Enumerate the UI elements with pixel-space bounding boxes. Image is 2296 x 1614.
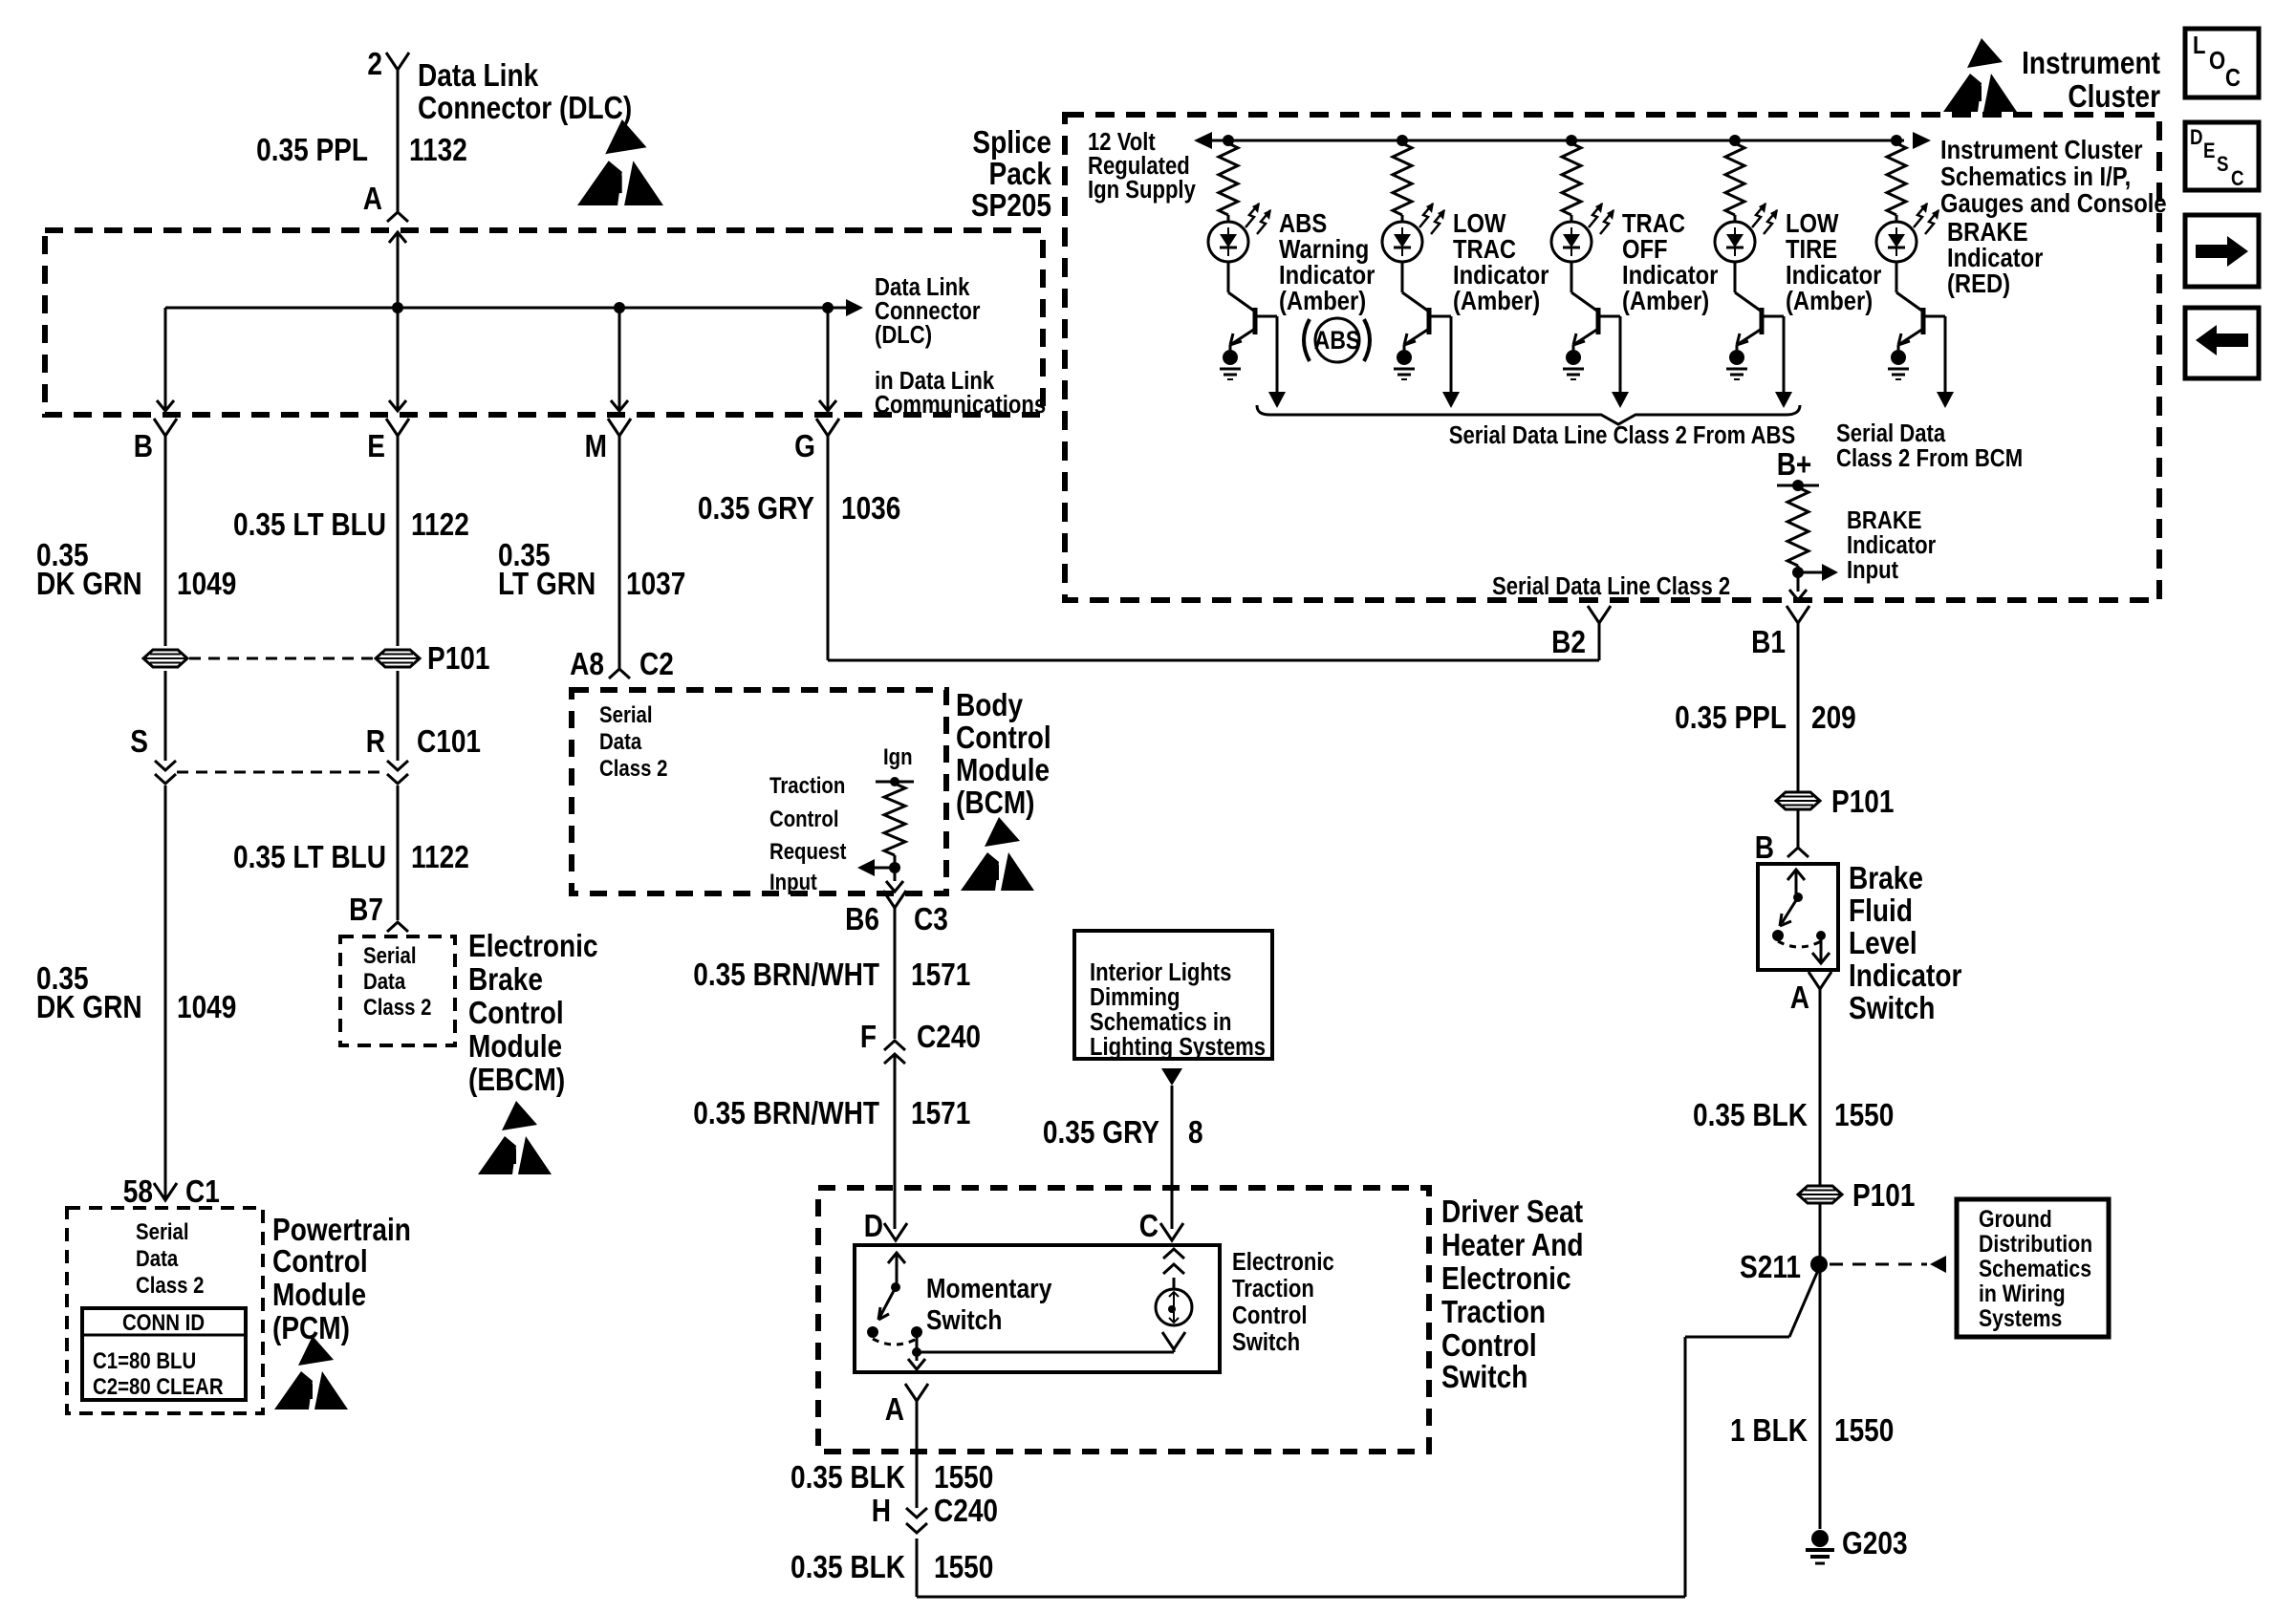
svg-text:M: M: [585, 429, 607, 464]
svg-text:C: C: [2231, 168, 2244, 191]
svg-text:Serial: Serial: [599, 701, 653, 727]
svg-text:Interior Lights: Interior Lights: [1090, 958, 1231, 986]
svg-text:Request: Request: [769, 838, 847, 864]
svg-text:Electronic: Electronic: [1441, 1261, 1571, 1297]
svg-text:0.35 LT BLU: 0.35 LT BLU: [233, 840, 386, 875]
svg-text:R: R: [366, 724, 385, 760]
svg-text:1122: 1122: [411, 840, 469, 875]
svg-text:S: S: [130, 724, 148, 760]
svg-text:Electronic: Electronic: [468, 929, 598, 964]
svg-text:C240: C240: [917, 1020, 981, 1055]
svg-text:Ground: Ground: [1979, 1205, 2052, 1232]
svg-text:1550: 1550: [1834, 1413, 1894, 1449]
svg-text:Module: Module: [468, 1029, 562, 1065]
svg-text:1550: 1550: [934, 1460, 993, 1496]
svg-text:Heater And: Heater And: [1441, 1228, 1584, 1263]
svg-text:E: E: [2203, 140, 2215, 163]
svg-text:Ign Supply: Ign Supply: [1088, 176, 1196, 204]
svg-text:Data: Data: [136, 1245, 179, 1271]
svg-text:L: L: [2193, 32, 2205, 59]
svg-text:Body: Body: [956, 688, 1023, 723]
svg-text:Input: Input: [1847, 556, 1898, 584]
svg-text:A8: A8: [570, 647, 604, 682]
svg-text:1550: 1550: [934, 1550, 993, 1585]
svg-text:58: 58: [123, 1174, 153, 1210]
svg-text:1049: 1049: [177, 990, 236, 1025]
svg-text:P101: P101: [427, 641, 489, 677]
svg-text:0.35 LT BLU: 0.35 LT BLU: [233, 507, 386, 543]
svg-text:(Amber): (Amber): [1786, 285, 1873, 315]
svg-text:E: E: [367, 429, 385, 464]
svg-text:Class 2: Class 2: [599, 755, 667, 781]
svg-text:Fluid: Fluid: [1849, 893, 1913, 929]
svg-text:Serial: Serial: [136, 1218, 189, 1244]
svg-text:DK GRN: DK GRN: [36, 567, 142, 602]
svg-text:Driver Seat: Driver Seat: [1441, 1194, 1583, 1230]
svg-text:Serial Data Line Class 2 From: Serial Data Line Class 2 From ABS: [1449, 421, 1795, 449]
svg-text:B+: B+: [1777, 447, 1812, 483]
svg-text:Switch: Switch: [1232, 1328, 1300, 1356]
svg-text:G: G: [794, 429, 815, 464]
svg-text:1 BLK: 1 BLK: [1730, 1413, 1808, 1449]
svg-text:C2: C2: [639, 647, 674, 682]
svg-text:(EBCM): (EBCM): [468, 1063, 565, 1098]
svg-text:Control: Control: [1232, 1302, 1307, 1329]
svg-text:0.35 PPL: 0.35 PPL: [256, 133, 368, 168]
svg-text:(Amber): (Amber): [1279, 285, 1366, 315]
svg-text:Electronic: Electronic: [1232, 1248, 1334, 1276]
svg-text:P101: P101: [1831, 785, 1894, 820]
svg-text:Switch: Switch: [1849, 991, 1935, 1026]
svg-text:1049: 1049: [177, 567, 236, 602]
svg-text:1571: 1571: [911, 1096, 970, 1131]
svg-text:S211: S211: [1740, 1250, 1801, 1285]
svg-text:Gauges and Console: Gauges and Console: [1940, 187, 2167, 218]
svg-text:CONN ID: CONN ID: [122, 1309, 205, 1335]
svg-text:Dimming: Dimming: [1090, 983, 1180, 1011]
svg-text:Module: Module: [272, 1278, 366, 1313]
svg-text:B: B: [1755, 830, 1774, 866]
svg-text:F: F: [860, 1020, 877, 1055]
svg-text:Pack: Pack: [989, 157, 1052, 192]
svg-text:Switch: Switch: [1441, 1360, 1527, 1395]
svg-text:0.35 BRN/WHT: 0.35 BRN/WHT: [693, 1096, 879, 1131]
svg-text:O: O: [2209, 47, 2225, 75]
svg-text:Module: Module: [956, 753, 1050, 788]
svg-text:Switch: Switch: [926, 1304, 1002, 1335]
svg-text:Connector (DLC): Connector (DLC): [418, 91, 632, 126]
svg-text:A: A: [885, 1392, 904, 1428]
svg-text:Control: Control: [769, 806, 839, 831]
svg-text:Brake: Brake: [468, 962, 543, 998]
svg-text:1132: 1132: [409, 133, 467, 168]
svg-text:1571: 1571: [911, 958, 970, 993]
svg-text:(Amber): (Amber): [1453, 285, 1540, 315]
svg-text:209: 209: [1811, 700, 1856, 736]
svg-text:Systems: Systems: [1979, 1304, 2062, 1331]
svg-text:(DLC): (DLC): [875, 321, 932, 349]
svg-text:D: D: [864, 1209, 883, 1244]
svg-text:G203: G203: [1842, 1526, 1908, 1561]
svg-text:Ign: Ign: [883, 743, 913, 769]
svg-text:Lighting Systems: Lighting Systems: [1090, 1033, 1266, 1061]
svg-text:LT GRN: LT GRN: [498, 567, 596, 602]
svg-text:C3: C3: [914, 902, 948, 937]
svg-text:C: C: [1139, 1209, 1159, 1244]
svg-text:Serial Data: Serial Data: [1836, 420, 1946, 447]
svg-text:2: 2: [367, 47, 382, 82]
svg-text:C240: C240: [934, 1494, 998, 1529]
svg-text:Level: Level: [1849, 926, 1917, 961]
svg-text:Traction: Traction: [1441, 1295, 1546, 1330]
svg-text:C1=80 BLU: C1=80 BLU: [93, 1347, 196, 1373]
svg-text:0.35 BLK: 0.35 BLK: [1693, 1098, 1808, 1133]
svg-text:in Wiring: in Wiring: [1979, 1280, 2066, 1306]
svg-text:Class 2 From BCM: Class 2 From BCM: [1836, 444, 2023, 472]
svg-text:H: H: [872, 1494, 891, 1529]
svg-text:A: A: [1790, 980, 1809, 1016]
svg-text:0.35 PPL: 0.35 PPL: [1675, 700, 1787, 736]
svg-text:Indicator: Indicator: [1847, 531, 1937, 559]
svg-text:(BCM): (BCM): [956, 785, 1035, 821]
svg-text:Serial: Serial: [363, 942, 417, 968]
svg-text:1122: 1122: [411, 507, 469, 543]
svg-text:Class 2: Class 2: [136, 1272, 204, 1298]
svg-text:Serial Data Line Class 2: Serial Data Line Class 2: [1492, 572, 1730, 600]
svg-text:SP205: SP205: [971, 188, 1051, 224]
svg-text:A: A: [363, 182, 382, 217]
svg-text:(RED): (RED): [1947, 268, 2010, 298]
svg-text:0.35 GRY: 0.35 GRY: [698, 491, 814, 527]
svg-text:Control: Control: [956, 721, 1051, 756]
svg-text:Schematics: Schematics: [1979, 1255, 2091, 1281]
svg-text:Indicator: Indicator: [1849, 958, 1961, 994]
svg-text:B1: B1: [1751, 625, 1786, 660]
svg-text:0.35 BLK: 0.35 BLK: [791, 1460, 905, 1496]
svg-text:Data: Data: [599, 728, 642, 754]
svg-text:Input: Input: [769, 869, 817, 894]
svg-text:C101: C101: [417, 724, 481, 760]
svg-text:Data Link: Data Link: [418, 58, 539, 94]
svg-text:Class 2: Class 2: [363, 994, 431, 1020]
svg-text:Control: Control: [1441, 1328, 1537, 1364]
svg-text:Data: Data: [363, 968, 406, 994]
svg-text:Control: Control: [272, 1244, 368, 1280]
svg-text:1037: 1037: [626, 567, 685, 602]
svg-text:Schematics in: Schematics in: [1090, 1008, 1232, 1036]
svg-text:BRAKE: BRAKE: [1847, 506, 1922, 534]
svg-text:P101: P101: [1852, 1178, 1915, 1214]
svg-text:8: 8: [1188, 1115, 1203, 1151]
svg-text:C: C: [2225, 64, 2241, 92]
svg-text:Distribution: Distribution: [1979, 1230, 2092, 1257]
svg-text:D: D: [2190, 127, 2203, 150]
svg-text:ABS: ABS: [1314, 326, 1360, 355]
svg-text:Cluster: Cluster: [2068, 79, 2160, 115]
svg-text:1036: 1036: [841, 491, 900, 527]
svg-text:0.35 BRN/WHT: 0.35 BRN/WHT: [693, 958, 879, 993]
svg-text:Momentary: Momentary: [926, 1273, 1051, 1303]
svg-text:Communications: Communications: [875, 391, 1046, 419]
svg-text:S: S: [2217, 154, 2228, 177]
svg-text:0.35 BLK: 0.35 BLK: [791, 1550, 905, 1585]
svg-text:Brake: Brake: [1849, 861, 1923, 896]
svg-text:Powertrain: Powertrain: [272, 1213, 411, 1248]
svg-text:B: B: [134, 429, 153, 464]
svg-text:(Amber): (Amber): [1622, 285, 1709, 315]
svg-text:1550: 1550: [1834, 1098, 1894, 1133]
svg-text:Traction: Traction: [769, 772, 845, 798]
svg-text:C2=80 CLEAR: C2=80 CLEAR: [93, 1373, 224, 1399]
svg-text:Instrument: Instrument: [2022, 46, 2160, 81]
svg-text:DK GRN: DK GRN: [36, 990, 142, 1025]
svg-text:0.35 GRY: 0.35 GRY: [1043, 1115, 1159, 1151]
svg-text:B2: B2: [1551, 625, 1586, 660]
svg-text:B7: B7: [349, 893, 383, 928]
svg-text:C1: C1: [185, 1174, 220, 1210]
svg-text:B6: B6: [845, 902, 879, 937]
svg-text:Traction: Traction: [1232, 1275, 1314, 1302]
svg-text:Splice: Splice: [972, 125, 1051, 161]
svg-text:Control: Control: [468, 996, 564, 1031]
